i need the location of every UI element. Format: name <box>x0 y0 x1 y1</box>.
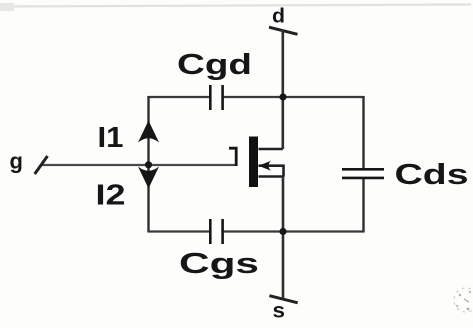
wire: right vertical rail lower (Cds bottom plate to source) <box>362 179 364 233</box>
terminal g: slash <box>35 156 48 174</box>
wire: top left segment (g node to Cgd left plate) <box>149 96 210 98</box>
node: junction dot source / bottom wire <box>279 228 286 235</box>
wire: drain vertical (d terminal through top junction to transistor) <box>281 30 284 150</box>
terminal d: slash <box>269 27 298 34</box>
wire: bottom left segment (to Cgs left plate) <box>149 230 210 232</box>
transistor Q1: source connection <box>259 175 284 178</box>
svg-text:I2: I2 <box>96 180 126 212</box>
transistor Q1: gate plate <box>229 148 236 166</box>
wire: bottom right segment (Cgs right plate to source node and right rail) <box>224 230 364 232</box>
faint top border artifact <box>3 5 471 7</box>
capacitor Cgs (plates) <box>210 219 222 244</box>
svg-text:d: d <box>272 5 285 28</box>
svg-text:s: s <box>273 300 286 323</box>
transistor Q1: channel bar <box>249 137 258 188</box>
wire: source vertical (transistor through bottom junction to s terminal) <box>282 177 285 299</box>
transistor Q1: body arrowhead <box>259 161 272 171</box>
current arrow I2 (downward) <box>138 167 159 189</box>
node: junction dot at gate / left rail <box>145 161 152 168</box>
wire: left vertical rail (gate branch) <box>147 96 149 233</box>
faint bottom-right smudge <box>454 288 473 312</box>
wire: right vertical rail upper (drain to Cds top plate) <box>362 96 364 169</box>
svg-text:Cds: Cds <box>395 159 469 191</box>
wire: top right segment (Cgd right plate to drain node and right rail) <box>224 96 364 98</box>
svg-text:I1: I1 <box>98 122 124 154</box>
node: junction dot drain / top wire <box>279 93 286 100</box>
transistor Q1: drain connection <box>259 148 283 151</box>
transistor Q1: body connection with arrow <box>259 166 284 177</box>
svg-text:Cgs: Cgs <box>179 248 259 280</box>
current arrow I1 (upward) <box>138 121 159 143</box>
svg-text:Cgd: Cgd <box>177 49 252 81</box>
terminal s: slash <box>269 296 297 303</box>
terminal g: lead wire <box>41 164 237 166</box>
svg-text:g: g <box>10 149 23 174</box>
capacitor Cds (plates) <box>342 169 384 178</box>
capacitor Cgd (plates) <box>210 85 222 110</box>
